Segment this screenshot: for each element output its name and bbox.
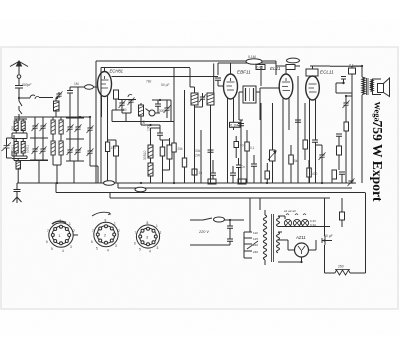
wires input coils — [12, 114, 27, 183]
svg-text:Wega: Wega — [373, 102, 383, 123]
oval above EL11 — [287, 58, 300, 63]
antenna terminal — [17, 75, 21, 79]
input coil L4 — [21, 142, 25, 154]
wires AZ11 — [278, 240, 316, 262]
svg-text:8: 8 — [105, 219, 107, 223]
resistor R7b box — [163, 138, 173, 170]
svg-text:ECL11: ECL11 — [320, 70, 334, 75]
osc cap C — [155, 104, 161, 106]
bus line 1b — [118, 183, 352, 188]
scan page area — [1, 47, 398, 309]
svg-text:5: 5 — [96, 247, 98, 251]
input coil L2 — [21, 121, 25, 131]
power transformer — [263, 210, 279, 265]
input coil L1 — [14, 121, 18, 131]
svg-text:0,1M: 0,1M — [230, 124, 238, 128]
vertical text Wega 759 W Export — [370, 102, 385, 203]
antenna trimmer left — [2, 143, 12, 152]
svg-text:300: 300 — [10, 126, 14, 131]
svg-text:1: 1 — [59, 234, 61, 238]
cap c — [157, 133, 163, 135]
svg-text:2: 2 — [104, 234, 106, 238]
vertical drop x218 — [218, 61, 276, 75]
svg-text:2: 2 — [118, 229, 120, 233]
input coil L5 row3 — [16, 161, 21, 169]
trimmer CT2 — [40, 123, 47, 131]
wire x201 down — [200, 130, 202, 183]
svg-text:6: 6 — [134, 242, 136, 246]
osc coil L6 — [59, 120, 63, 134]
svg-text:3: 3 — [70, 245, 72, 249]
svg-text:2: 2 — [73, 229, 75, 233]
svg-text:10011: 10011 — [25, 145, 29, 153]
svg-text:6: 6 — [91, 240, 93, 244]
svg-text:50: 50 — [123, 108, 127, 112]
resistor on line 2 — [182, 158, 186, 167]
box 50 on x236 — [234, 136, 244, 158]
band switch arc — [30, 95, 35, 98]
vertical from rect to bus — [324, 198, 326, 273]
svg-text:ECH81: ECH81 — [110, 68, 124, 73]
tube ECH81 — [98, 72, 112, 141]
svg-text:4: 4 — [149, 250, 151, 254]
svg-text:1: 1 — [156, 224, 158, 228]
IF transformer T2 box — [243, 86, 256, 103]
svg-text:50 µF: 50 µF — [161, 83, 170, 87]
small comps output sect — [295, 120, 301, 122]
tube EL11 — [279, 74, 293, 183]
trimmer CT7 — [67, 147, 74, 155]
svg-text:759 W Export: 759 W Export — [370, 121, 385, 203]
svg-text:4: 4 — [107, 249, 109, 253]
resistor R4 vertical — [114, 140, 119, 183]
svg-text:6: 6 — [46, 240, 48, 244]
padder trimmer — [56, 91, 63, 99]
svg-text:400: 400 — [142, 120, 146, 126]
band switch hook — [128, 95, 132, 98]
antenna — [10, 61, 28, 74]
svg-text:50: 50 — [240, 144, 244, 148]
resistor near pot — [265, 163, 270, 183]
svg-text:EBF11: EBF11 — [237, 70, 251, 75]
osc coil stack L10 — [148, 163, 153, 176]
resistor R12 — [245, 130, 255, 183]
osc coil L5 — [51, 120, 55, 134]
wires trimmer bank 2 — [66, 118, 84, 183]
wire x78 — [70, 87, 78, 118]
svg-text:470: 470 — [312, 172, 318, 176]
trimmer CT4 — [40, 146, 47, 154]
svg-text:5: 5 — [139, 248, 141, 252]
svg-text:1n: 1n — [199, 171, 203, 175]
svg-text:0.05: 0.05 — [257, 66, 264, 70]
box on x342 — [340, 198, 345, 227]
svg-text:78d: 78d — [146, 80, 152, 84]
svg-text:EL11: EL11 — [270, 66, 281, 71]
bottom wire — [325, 193, 366, 274]
svg-text:4: 4 — [62, 249, 64, 253]
fuse oval — [214, 217, 225, 222]
osc coil stack L9 — [148, 145, 153, 158]
verticals between tubes — [298, 76, 305, 183]
inner avc line — [101, 68, 190, 184]
wires osc coils — [53, 117, 61, 183]
oval resistor on bus1 — [104, 181, 115, 186]
oscillator coupling coil — [54, 101, 60, 111]
vertical x261 — [260, 66, 262, 183]
coupling cap to EL11 — [276, 65, 300, 70]
svg-text:110: 110 — [253, 231, 258, 235]
svg-text:Cn: Cn — [241, 165, 245, 169]
wire to band switch — [19, 97, 53, 100]
bottom resistor — [335, 265, 350, 276]
resistor R7 — [160, 140, 165, 183]
svg-text:8: 8 — [147, 221, 149, 225]
front-end bottom tie line — [14, 135, 48, 161]
wires osc coil stack — [141, 118, 151, 183]
svg-text:150: 150 — [111, 146, 117, 150]
cap at 209/172 — [208, 150, 214, 152]
ganged tuning cap C1 — [87, 125, 94, 133]
speaker — [371, 78, 390, 97]
wire x210.5 down — [210, 140, 212, 183]
osc trimmer D — [164, 105, 171, 113]
pilot lamps — [284, 219, 291, 226]
grid resistor oval to tube — [70, 82, 98, 89]
output transformer primary — [362, 77, 373, 95]
svg-text:a1 a2 a3: a1 a2 a3 — [284, 209, 296, 213]
trimmer beside tube — [114, 90, 125, 110]
svg-text:25k: 25k — [178, 147, 184, 151]
svg-text:220 V: 220 V — [198, 230, 209, 234]
mains caps — [227, 226, 233, 228]
cap 0.1 top right — [349, 64, 356, 75]
resistor boxes on bus1 — [208, 179, 216, 184]
svg-text:3: 3 — [157, 246, 159, 250]
small osc coil — [139, 105, 144, 116]
svg-text:0.1M: 0.1M — [248, 55, 256, 59]
box 0.05 top — [256, 65, 265, 70]
trimmer CT6 — [75, 124, 82, 132]
antenna series capacitor — [15, 78, 32, 97]
trimmer CT3 — [32, 146, 39, 154]
long vertical screen line 1 — [173, 68, 175, 143]
heater wires + lamps — [278, 216, 330, 232]
cap Cn — [236, 158, 245, 183]
vertical x272 volume — [272, 103, 274, 183]
tube socket V3 — [134, 221, 162, 254]
svg-text:7: 7 — [135, 231, 137, 235]
svg-text:300: 300 — [159, 109, 165, 113]
svg-text:30510: 30510 — [143, 150, 147, 160]
svg-text:1M: 1M — [74, 82, 79, 86]
cap on EBF grid — [215, 78, 221, 80]
svg-text:5k: 5k — [294, 159, 298, 163]
volume pot — [268, 150, 276, 161]
svg-text:8: 8 — [60, 219, 62, 223]
svg-text:100: 100 — [147, 125, 151, 131]
mains input wires — [190, 218, 230, 245]
cap beside 0.1M — [238, 124, 244, 126]
switch contact S1a — [19, 101, 22, 114]
voltage selector — [244, 231, 258, 258]
oval resistor on top line — [246, 55, 262, 64]
front-end top tie line — [14, 116, 90, 118]
ground symbol — [13, 183, 22, 203]
trimmer CT8 — [75, 147, 82, 155]
wires trimmers — [30, 117, 48, 183]
rectifier AZ11 — [295, 243, 309, 257]
svg-text:2: 2 — [160, 231, 162, 235]
svg-text:7: 7 — [92, 229, 94, 233]
tube EBF11 — [224, 74, 238, 183]
osc section trimmer A — [119, 100, 126, 108]
bus line 2 — [56, 183, 365, 193]
cap C22 — [251, 164, 257, 166]
vertical x241 down — [239, 120, 243, 183]
svg-text:3: 3 — [115, 244, 117, 248]
lamp pigtails — [286, 214, 306, 215]
svg-text:7: 7 — [47, 229, 49, 233]
tube top leads — [105, 63, 313, 74]
svg-text:220: 220 — [253, 243, 258, 247]
svg-text:125: 125 — [253, 237, 258, 241]
svg-text:3: 3 — [146, 236, 148, 240]
bus line 3 — [110, 193, 330, 233]
svg-text:1: 1 — [69, 222, 71, 226]
trimmer CT5 — [67, 124, 74, 132]
trimmer CT1 — [32, 123, 39, 131]
ganged tuning cap C2 — [87, 148, 94, 156]
long vertical screen line 2 — [184, 90, 186, 158]
svg-text:50 µF: 50 µF — [324, 234, 333, 238]
svg-text:AZ11: AZ11 — [295, 235, 306, 240]
IF trimmers — [199, 94, 206, 102]
tube socket V1 — [46, 219, 78, 253]
wire antenna down — [18, 97, 20, 119]
svg-text:30k: 30k — [195, 149, 201, 153]
filter cap 50uF — [322, 234, 333, 245]
IF transformer T1 coil b — [207, 93, 214, 105]
osc wires — [151, 100, 172, 128]
tube ECL11 with top box — [306, 69, 320, 183]
bus line 1 (ground bus) — [17, 182, 356, 184]
osc coil L7 — [51, 141, 55, 155]
detector caps row — [210, 173, 216, 175]
oval resistor on bus2 — [135, 187, 146, 192]
svg-text:250: 250 — [338, 265, 344, 269]
osc section trimmer B — [128, 97, 135, 105]
switch wafer circle — [149, 110, 155, 116]
component 0.1M box mid — [230, 122, 241, 127]
IF transformer T1 coil a — [191, 93, 198, 105]
avc line across — [112, 110, 174, 122]
svg-text:1: 1 — [114, 222, 116, 226]
cap 1n on x195 — [192, 169, 202, 175]
outer shield box top — [96, 61, 276, 183]
svg-text:240: 240 — [253, 250, 258, 254]
coupling cap top right — [336, 77, 353, 94]
svg-text:0,1: 0,1 — [250, 146, 255, 150]
resistor on line 1 — [172, 143, 183, 152]
osc coil L8 — [59, 141, 63, 155]
cathode resistor R3 — [106, 140, 117, 183]
resistor R15 — [307, 160, 318, 183]
grid coupling cap — [67, 87, 73, 118]
svg-text:500pF: 500pF — [22, 83, 32, 87]
top bus to right section — [276, 61, 330, 66]
feed line y76.5 — [112, 76, 219, 78]
tube socket V2 — [91, 212, 120, 252]
input coil L3 — [14, 142, 18, 154]
svg-text:5: 5 — [51, 247, 53, 251]
svg-text:0,3A: 0,3A — [310, 223, 316, 227]
resistor R14 — [289, 145, 298, 183]
right column components — [343, 100, 350, 108]
